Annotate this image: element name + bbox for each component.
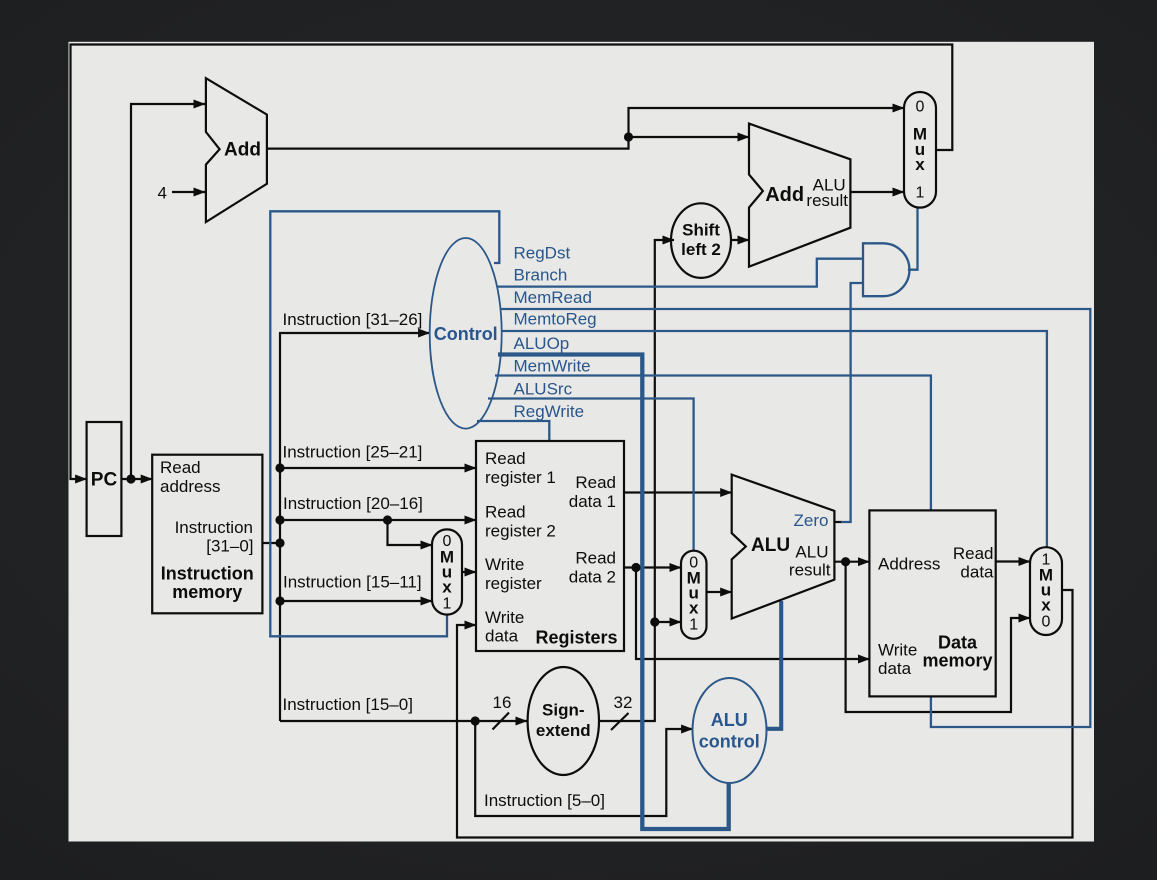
svg-text:extend: extend <box>536 721 591 740</box>
svg-text:Zero: Zero <box>794 511 829 530</box>
wire ALU result bypass to right mux input 0 <box>846 562 1030 712</box>
svg-text:Sign-: Sign- <box>542 701 585 720</box>
wire constant 4 into Add <box>172 191 205 193</box>
wire instruction bus vertical <box>279 333 281 721</box>
svg-text:data 1: data 1 <box>569 492 616 511</box>
wire Instruction [15-11] to write-reg mux input 1 <box>280 600 432 602</box>
svg-text:data: data <box>878 659 912 678</box>
ALU-src mux <box>681 551 707 639</box>
svg-text:register 1: register 1 <box>485 468 556 487</box>
ALU control ellipse <box>693 678 767 783</box>
svg-text:ALU: ALU <box>751 535 790 556</box>
PC register box <box>87 422 122 536</box>
wire sign-extend branch to ALU-src mux input 1 <box>655 621 681 623</box>
svg-text:Read: Read <box>485 449 526 468</box>
wire Instruction [20-16] to Read register 2 <box>280 519 476 521</box>
wire Read data 2 to ALU-src mux input 0 <box>624 566 681 568</box>
svg-text:x: x <box>689 599 699 618</box>
svg-text:Shift: Shift <box>682 221 720 240</box>
svg-text:MemtoReg: MemtoReg <box>514 310 597 329</box>
svg-text:Add: Add <box>765 184 804 206</box>
svg-text:register 2: register 2 <box>485 522 556 541</box>
svg-text:4: 4 <box>158 184 167 203</box>
svg-text:1: 1 <box>916 185 925 202</box>
wire Zero output stub <box>834 521 842 523</box>
svg-text:ALU: ALU <box>795 543 828 562</box>
slash 32 bits <box>611 713 629 730</box>
Data memory box <box>869 510 995 696</box>
svg-text:Data: Data <box>938 633 978 653</box>
svg-text:RegDst: RegDst <box>514 244 571 263</box>
wire MemtoReg to right mux select <box>502 331 1047 547</box>
wire Instruction [15-0] to sign-extend <box>280 720 527 722</box>
wire Read data 1 to ALU <box>624 491 732 493</box>
Control ellipse <box>430 238 502 429</box>
wire PC to instruction memory <box>121 478 152 480</box>
svg-text:ALUOp: ALUOp <box>514 334 570 353</box>
svg-text:16: 16 <box>493 693 512 712</box>
wire AND gate output to top mux select <box>908 207 918 270</box>
AND gate <box>863 243 909 296</box>
node PC output branch <box>126 474 135 483</box>
svg-text:control: control <box>699 732 760 752</box>
wire Read data 2 branch to Data memory Write data <box>636 568 869 660</box>
svg-text:Registers: Registers <box>535 628 617 648</box>
svg-text:Instruction [5–0]: Instruction [5–0] <box>484 791 605 810</box>
wire Zero to AND gate bottom input <box>841 283 863 522</box>
svg-text:0: 0 <box>1042 614 1051 631</box>
svg-text:data 2: data 2 <box>569 568 616 587</box>
wire MemWrite to Data memory top <box>495 376 931 510</box>
svg-text:MemRead: MemRead <box>514 288 592 307</box>
svg-text:Address: Address <box>878 555 940 574</box>
wire Instruction [5-0] to ALU control <box>475 721 692 816</box>
svg-text:Add: Add <box>224 140 261 161</box>
wire PC+4 branch to Add ALU result top input <box>629 136 750 138</box>
svg-text:Branch: Branch <box>514 266 568 285</box>
wire ALU result to Data memory Address <box>834 561 869 563</box>
svg-text:Instruction [20–16]: Instruction [20–16] <box>283 494 423 513</box>
svg-text:Read: Read <box>953 544 994 563</box>
wire write-reg mux output to Write register <box>462 571 476 573</box>
node instruction bus 25-21 <box>275 463 284 472</box>
svg-text:Instruction: Instruction <box>161 564 254 584</box>
wire ALU-src mux output to ALU <box>707 591 732 593</box>
adder Add (PC+4) <box>206 78 267 222</box>
node instruction bus 15-11 <box>275 596 284 605</box>
wire mux output around top to PC input <box>71 45 953 480</box>
Shift left 2 ellipse <box>671 203 731 278</box>
wire instruction memory output to bus <box>262 542 281 544</box>
wire writeback from right mux to Registers Write data <box>457 590 1073 838</box>
wire Branch to AND gate top input <box>497 259 863 287</box>
svg-text:0: 0 <box>916 99 925 116</box>
svg-text:left 2: left 2 <box>681 240 721 259</box>
svg-text:x: x <box>1041 596 1051 615</box>
svg-text:1: 1 <box>689 617 698 634</box>
Instruction memory box <box>152 455 262 614</box>
svg-text:Instruction [31–26]: Instruction [31–26] <box>283 310 423 329</box>
svg-text:Read: Read <box>485 503 526 522</box>
wire Instruction [20-16] branch to write-reg mux input 0 <box>388 520 433 545</box>
svg-text:result: result <box>789 561 831 580</box>
svg-text:MemWrite: MemWrite <box>514 357 591 376</box>
svg-text:Write: Write <box>485 608 524 627</box>
node instruction 15-0 branch <box>471 716 480 725</box>
svg-text:Instruction: Instruction <box>175 518 253 537</box>
right mux (MemtoReg) <box>1030 547 1062 635</box>
Sign-extend ellipse <box>528 667 599 775</box>
top mux (PCSrc) <box>904 92 936 208</box>
node sign-extend branch <box>650 617 659 626</box>
wire ALU control output to ALU (thick) <box>766 601 781 729</box>
svg-text:Instruction [15–0]: Instruction [15–0] <box>283 695 413 714</box>
svg-text:Read: Read <box>160 458 201 477</box>
node instruction bus join <box>275 538 284 547</box>
svg-text:data: data <box>485 627 519 646</box>
svg-text:data: data <box>960 563 994 582</box>
wire Add ALU result output to top mux input 1 <box>850 191 904 193</box>
node ALU result branch <box>841 557 850 566</box>
svg-text:Control: Control <box>434 324 498 344</box>
wire RegWrite to Registers top <box>477 421 549 440</box>
svg-text:address: address <box>160 477 220 496</box>
wire MemRead to Data memory bottom <box>501 309 1091 727</box>
node read data 2 branch <box>631 563 640 572</box>
node 20-16 branch <box>383 515 392 524</box>
svg-text:Read: Read <box>575 549 616 568</box>
ALU <box>732 475 835 619</box>
Registers box <box>476 441 624 651</box>
wire ALUOp to ALU control (thick) <box>498 355 729 830</box>
svg-text:Read: Read <box>575 473 616 492</box>
svg-text:Instruction [15–11]: Instruction [15–11] <box>283 573 422 592</box>
wire Instruction [25-21] to Read register 1 <box>280 467 476 469</box>
svg-text:32: 32 <box>614 693 633 712</box>
wire Instruction [31-26] into Control <box>279 332 430 334</box>
wire PC branch up to Add input <box>131 104 205 479</box>
svg-text:Write: Write <box>878 641 917 660</box>
wire Data memory Read data to right mux input 1 <box>996 560 1030 562</box>
slash 16 bits <box>493 713 510 730</box>
svg-text:memory: memory <box>922 651 992 671</box>
write-register mux (RegDst) <box>432 529 462 614</box>
svg-text:result: result <box>806 191 848 210</box>
svg-text:Write: Write <box>485 555 524 574</box>
svg-text:memory: memory <box>172 582 242 602</box>
svg-text:RegWrite: RegWrite <box>514 402 585 421</box>
adder Add ALU result (branch target) <box>749 124 850 267</box>
svg-text:1: 1 <box>443 596 452 613</box>
wire sign-extend output up to Shift left 2 <box>599 240 674 721</box>
svg-text:x: x <box>915 155 925 174</box>
svg-text:register: register <box>485 574 542 593</box>
node instruction bus 20-16 <box>275 515 284 524</box>
wire Shift left 2 output to Add ALU result bottom input <box>732 239 749 241</box>
svg-text:ALUSrc: ALUSrc <box>514 380 573 399</box>
svg-text:ALU: ALU <box>711 710 748 730</box>
wire ALUSrc to ALU-src mux select <box>488 399 694 551</box>
svg-text:Instruction [25–21]: Instruction [25–21] <box>283 443 423 462</box>
wire RegDst to write-reg mux select <box>270 211 499 636</box>
node PC+4 branch <box>624 132 633 141</box>
wire Add output PC+4 to top mux input 0 <box>267 108 904 149</box>
svg-text:[31–0]: [31–0] <box>206 537 253 556</box>
svg-text:x: x <box>442 578 452 597</box>
svg-text:PC: PC <box>91 470 118 491</box>
